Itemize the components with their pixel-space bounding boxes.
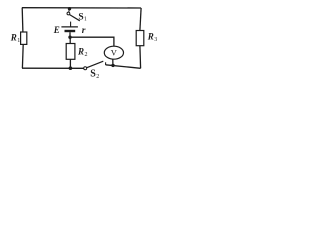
resistor R3 — [136, 31, 144, 46]
svg-text:R: R — [147, 32, 154, 42]
wire node A to voltmeter — [70, 37, 114, 46]
svg-text:2: 2 — [96, 74, 99, 80]
resistor R2 — [66, 44, 75, 60]
svg-text:E: E — [53, 25, 60, 35]
svg-text:R: R — [10, 32, 17, 42]
wire top — [22, 7, 141, 9]
wire left branch upper — [21, 8, 24, 33]
wire battery to node A — [69, 32, 71, 37]
switch S1 blade — [70, 15, 80, 21]
switch S1 hinge circle — [67, 12, 70, 15]
node dot bottom R2 junction — [69, 66, 73, 70]
svg-text:1: 1 — [17, 38, 20, 44]
svg-text:R: R — [77, 47, 84, 57]
wire right branch upper — [140, 8, 141, 31]
battery E long plate — [61, 26, 78, 28]
switch S2 hinge circle — [84, 67, 87, 70]
svg-text:2: 2 — [85, 52, 88, 58]
svg-text:r: r — [82, 26, 86, 36]
svg-text:1: 1 — [84, 17, 87, 23]
resistor R1 — [21, 32, 27, 44]
svg-text:S: S — [78, 12, 83, 22]
wire left branch lower — [21, 44, 24, 68]
voltmeter U1 circle — [104, 46, 123, 59]
wire R2 to bottom node — [69, 59, 71, 68]
wire right branch lower — [139, 46, 142, 69]
node A dot below battery — [68, 36, 71, 39]
svg-text:3: 3 — [154, 37, 157, 43]
node dot bottom voltmeter junction — [111, 64, 114, 67]
switch S2 blade — [87, 61, 104, 67]
svg-text:V: V — [111, 48, 118, 58]
switch S1 fixed contact — [70, 22, 72, 27]
battery E short thick plate — [65, 30, 76, 32]
wire node A to R2 — [69, 37, 71, 43]
wire bottom right — [106, 65, 141, 69]
wire bottom left — [22, 67, 84, 69]
switch S2 fixed contact — [105, 62, 107, 65]
node dot top S1 junction — [68, 7, 71, 10]
switch S1 hinge stem — [68, 10, 71, 13]
wire voltmeter to bottom wire — [112, 59, 114, 65]
